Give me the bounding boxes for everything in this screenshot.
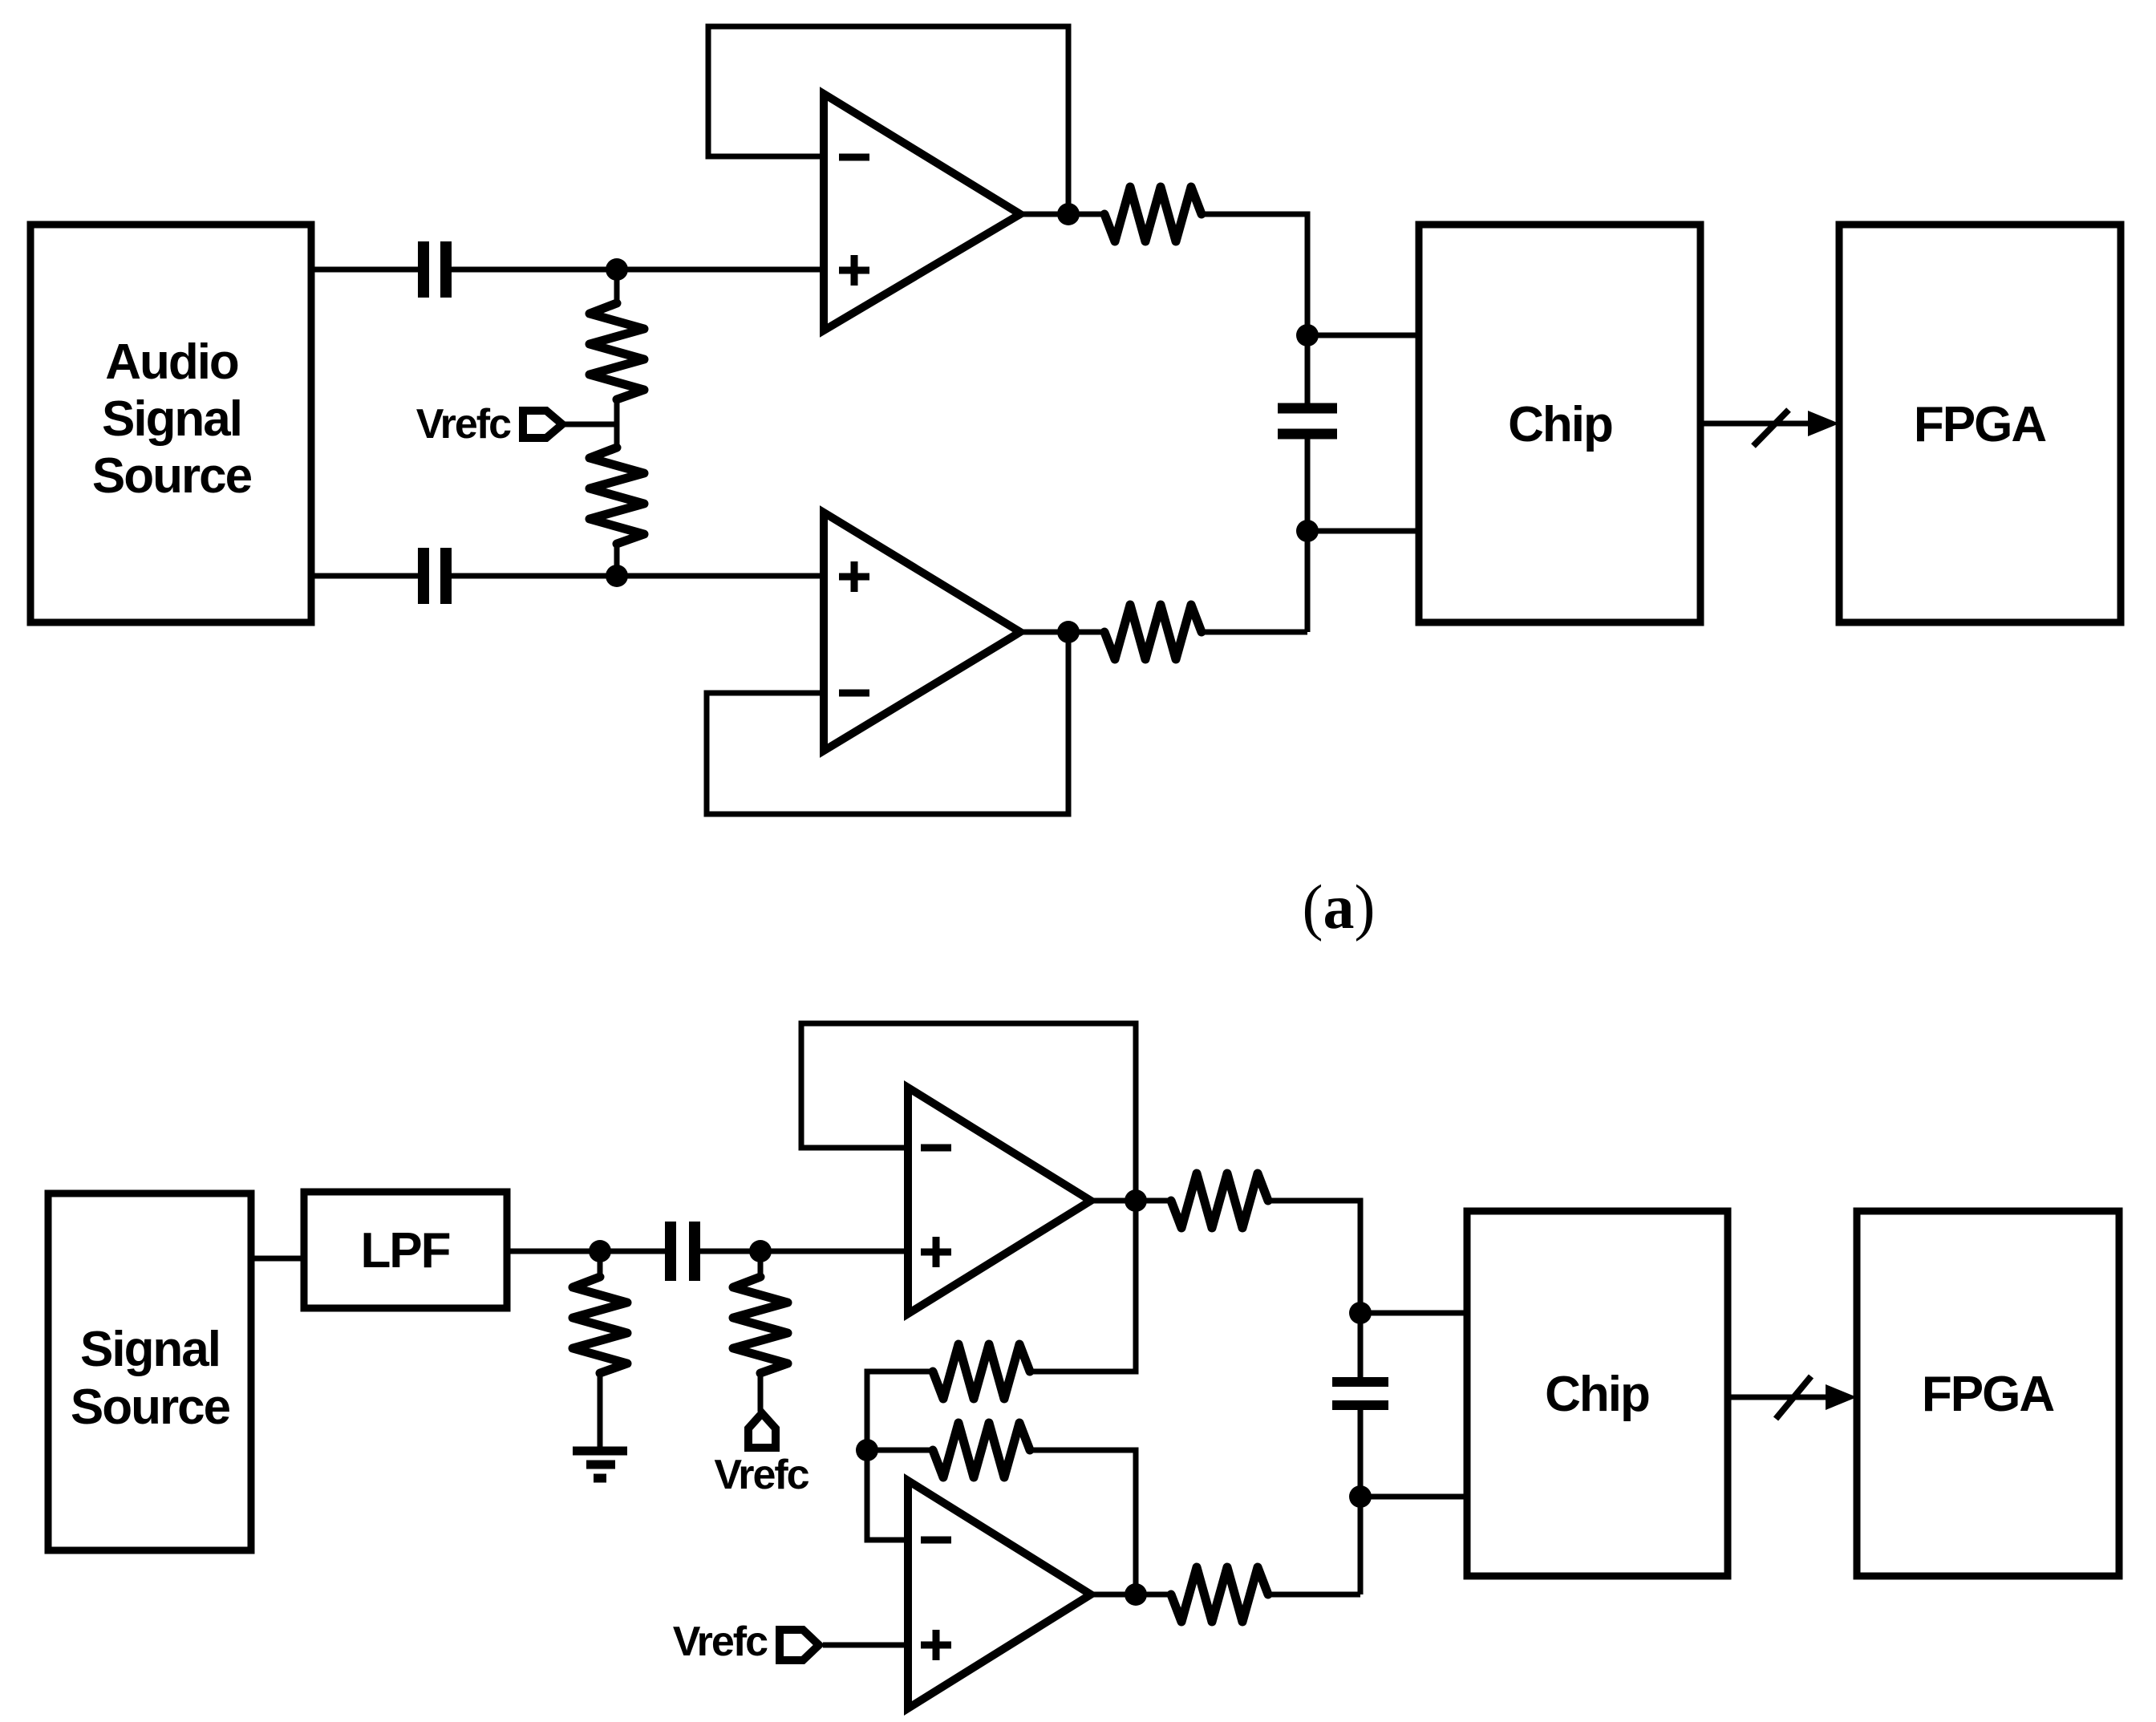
ground bbox=[573, 1447, 627, 1456]
resistor R1 bbox=[590, 303, 644, 399]
op-amp U3 bbox=[908, 1088, 1091, 1314]
svg-text:LPF: LPF bbox=[360, 1223, 449, 1278]
wire U1 feedback loop bbox=[708, 26, 1068, 214]
svg-text:Vrefc: Vrefc bbox=[673, 1619, 768, 1665]
arrowhead (a) bbox=[1808, 411, 1839, 436]
capacitor C3 bbox=[1278, 403, 1337, 414]
resistor R6 bbox=[733, 1277, 788, 1373]
node I (left feedback node) bbox=[856, 1439, 878, 1461]
wire R10 to chip corner bbox=[1268, 1592, 1360, 1598]
wire node H to Chip bbox=[1360, 1494, 1467, 1500]
wire R2 to node B bbox=[614, 544, 620, 576]
box Chip (a) bbox=[1419, 225, 1700, 622]
wire top output of source to capacitor C1 bbox=[311, 267, 418, 273]
wire node I to resistor R9 bbox=[867, 1448, 933, 1453]
wire C5 bottom to U4 output corner bbox=[1358, 1410, 1364, 1594]
wire bus arrow Chip to FPGA (b) bbox=[1728, 1395, 1832, 1400]
wire Vrefc connector to divider midpoint bbox=[561, 422, 617, 427]
box Chip (b) bbox=[1467, 1211, 1728, 1576]
U4 plus sign bbox=[921, 1642, 951, 1649]
capacitor C1 bbox=[418, 241, 429, 298]
box FPGA (b) bbox=[1857, 1211, 2119, 1576]
wire R8 to left vertical bbox=[867, 1372, 933, 1540]
capacitor C2 bbox=[418, 548, 429, 604]
wire U1 output bbox=[1020, 212, 1104, 217]
resistor R10 bbox=[1171, 1567, 1268, 1622]
wire R5 to ground bbox=[598, 1373, 603, 1448]
U2 minus sign bbox=[839, 690, 869, 697]
wire C4 to op-amp U3 plus input bbox=[700, 1249, 908, 1254]
node A (top input node) bbox=[606, 258, 628, 281]
svg-text:FPGA: FPGA bbox=[1922, 1367, 2054, 1422]
wire cross feedback resistor R8 left leg bbox=[1030, 1201, 1136, 1372]
wire U3 output bbox=[1091, 1198, 1171, 1204]
box Signal Source bbox=[48, 1193, 251, 1550]
wire bus arrow Chip to FPGA (a) bbox=[1700, 421, 1814, 427]
svg-text:Vrefc: Vrefc bbox=[416, 401, 511, 448]
svg-text:(a): (a) bbox=[1303, 872, 1376, 942]
wire U2 feedback loop bbox=[707, 632, 1068, 814]
bus slash (b) bbox=[1776, 1376, 1811, 1419]
node U1 output bbox=[1057, 203, 1080, 225]
wire C2 to op-amp U2 plus input bbox=[452, 573, 824, 579]
svg-text:Source: Source bbox=[71, 1380, 230, 1435]
bus slash (a) bbox=[1753, 410, 1789, 446]
node G (chip top input) bbox=[1349, 1302, 1372, 1324]
wire R4 to chip input corner bbox=[1202, 630, 1307, 635]
svg-text:FPGA: FPGA bbox=[1914, 397, 2046, 452]
wire U4 output bbox=[1091, 1592, 1171, 1598]
resistor R2 bbox=[590, 448, 644, 544]
U3 plus sign bbox=[921, 1249, 951, 1256]
wire node D to Chip bbox=[1307, 529, 1419, 534]
wire bottom output of source to capacitor C2 bbox=[311, 573, 418, 579]
wire Vrefc connector to U4 plus input bbox=[823, 1643, 908, 1648]
label Signal Source bbox=[71, 1322, 230, 1435]
wire node E down to resistor R5 bbox=[598, 1251, 603, 1277]
connector Vrefc (b bottom, pointing right) bbox=[780, 1630, 819, 1660]
wire Signal Source to LPF bbox=[251, 1256, 304, 1262]
node D (chip bottom input) bbox=[1296, 520, 1319, 542]
wire R1 to Vrefc junction bbox=[614, 399, 620, 448]
resistor R7 bbox=[1171, 1173, 1268, 1228]
wire node C to Chip bbox=[1307, 333, 1419, 338]
wire R7 to chip corner bbox=[1268, 1201, 1360, 1377]
wire C3 bottom to U2 output corner bbox=[1305, 439, 1311, 632]
resistor R8 bbox=[933, 1344, 1030, 1399]
wire C1 to op-amp U1 plus input bbox=[452, 267, 824, 273]
svg-text:Audio: Audio bbox=[105, 334, 238, 390]
svg-text:Signal: Signal bbox=[80, 1322, 220, 1377]
arrowhead (b) bbox=[1826, 1384, 1857, 1410]
resistor R3 bbox=[1104, 187, 1202, 241]
connector Vrefc (a) bbox=[523, 411, 562, 438]
connector Vrefc (b mid, pointing up) bbox=[748, 1413, 776, 1448]
label Audio Signal Source bbox=[92, 334, 252, 504]
op-amp U2 bbox=[824, 513, 1020, 751]
U1 minus sign bbox=[839, 154, 869, 161]
wire R3 to chip input corner bbox=[1202, 214, 1307, 403]
node U3 output bbox=[1125, 1189, 1147, 1212]
node C (chip top input) bbox=[1296, 324, 1319, 346]
resistor R9 bbox=[933, 1423, 1030, 1477]
resistor R4 bbox=[1104, 605, 1202, 659]
op-amp U1 bbox=[824, 94, 1020, 330]
svg-text:Chip: Chip bbox=[1545, 1367, 1649, 1422]
U1 plus sign bbox=[839, 267, 869, 274]
op-amp U4 bbox=[908, 1481, 1091, 1708]
wire node F down to resistor R6 bbox=[758, 1251, 764, 1277]
svg-text:Source: Source bbox=[92, 448, 252, 504]
svg-text:Vrefc: Vrefc bbox=[714, 1452, 808, 1498]
node F bbox=[749, 1240, 772, 1262]
U2 plus sign bbox=[839, 573, 869, 581]
capacitor C4 bbox=[665, 1222, 676, 1281]
node H (chip bottom input) bbox=[1349, 1485, 1372, 1508]
node U4 output bbox=[1125, 1583, 1147, 1606]
wire U3 feedback loop bbox=[801, 1023, 1136, 1201]
U4 minus sign bbox=[921, 1537, 951, 1544]
box LPF bbox=[304, 1192, 507, 1308]
box Audio Signal Source bbox=[30, 225, 311, 622]
wire LPF to capacitor C4 bbox=[507, 1249, 665, 1254]
U3 minus sign bbox=[921, 1145, 951, 1152]
wire node A down to resistor R1 bbox=[614, 269, 620, 303]
node B (bottom input node) bbox=[606, 565, 628, 587]
wire R6 to Vrefc connector bbox=[758, 1373, 764, 1412]
svg-text:Chip: Chip bbox=[1508, 397, 1612, 452]
wire U2 output bbox=[1020, 630, 1104, 635]
svg-text:Signal: Signal bbox=[102, 391, 241, 447]
capacitor C5 bbox=[1332, 1377, 1388, 1387]
node U2 output bbox=[1057, 621, 1080, 643]
wire R9 to U4 output vertical bbox=[1030, 1450, 1136, 1594]
box FPGA (a) bbox=[1839, 225, 2121, 622]
resistor R5 bbox=[573, 1277, 627, 1373]
node E bbox=[589, 1240, 611, 1262]
wire node G to Chip bbox=[1360, 1311, 1467, 1316]
